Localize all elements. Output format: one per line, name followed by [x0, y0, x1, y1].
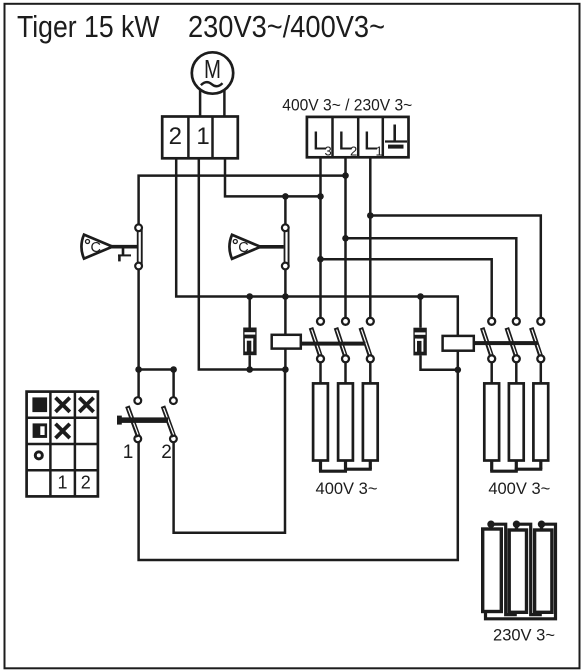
heating element R2 [338, 383, 353, 460]
table symbol: X row2 col2 [56, 424, 70, 438]
svg-text:3: 3 [325, 144, 332, 159]
heating element R6 [533, 383, 548, 460]
wire: phase L2 vertical [344, 157, 347, 317]
wire: L2 branch to contactor K2 pole 2 [346, 238, 517, 317]
wire motor lead left [199, 90, 202, 118]
thermostat T1 actuator arm [111, 245, 138, 249]
svg-text:C: C [238, 240, 248, 256]
230V inset wiring: phase 1 hook [491, 524, 517, 614]
heating element R4 [484, 383, 499, 460]
230V inset wiring: phase 3 hook to R7 bottom [486, 524, 556, 619]
svg-text:2: 2 [169, 123, 182, 150]
wire: K1 element stub 2 [344, 363, 347, 384]
wire: thermostat T2 bottom to coil rail [284, 270, 287, 297]
wire motor lead right [223, 90, 226, 118]
230V delta inset: heating element R8 [509, 530, 526, 612]
thermostat T1 manual reset symbol [118, 248, 131, 261]
wire: thermostat T1 top to L2 (horizontal y175.6) [139, 176, 346, 224]
wire: switch pole 2 to left return riser [174, 370, 285, 533]
heating element R1 [313, 383, 328, 460]
table symbol: circle (row3) [35, 452, 42, 459]
svg-text:230V 3~: 230V 3~ [493, 627, 555, 645]
heating element R3 [363, 383, 378, 460]
wire: motor blank terminal to L3 (y196.4) [225, 158, 321, 196]
wire: R4-R6 star bus [490, 461, 542, 472]
svg-text:C: C [91, 240, 101, 256]
selector switch S1 actuator bar [117, 416, 168, 425]
overheat limiter F2 [413, 328, 426, 356]
switch position table [27, 392, 98, 497]
wire: F1 limiter feed [248, 297, 251, 328]
selector switch S1 pole 2 blade [163, 406, 174, 437]
wire: switch pole 1 to right return (bottom run y560) [139, 370, 458, 560]
thermostat T1 sensor bulb [82, 235, 113, 259]
wire: R1-R3 star bus [319, 461, 372, 472]
selector switch S1 pole 2 contacts [170, 397, 177, 442]
thermostat T2 sensor bulb [230, 235, 261, 259]
svg-text:2: 2 [161, 442, 172, 463]
wire: F2 limiter feed [419, 297, 422, 328]
selector switch S1 pole 1 blade [127, 406, 138, 437]
selector switch S1 pole 1 contacts [134, 397, 141, 442]
230V inset wiring: phase 2 hook [517, 524, 542, 614]
svg-text:1: 1 [123, 442, 134, 463]
heating element R5 [509, 383, 524, 460]
wire: K1 element stub 1 [319, 363, 322, 384]
wire: tap to thermostat T2 [284, 196, 287, 223]
svg-text:400V 3~ / 230V 3~: 400V 3~ / 230V 3~ [282, 97, 412, 115]
ground symbol (PE earth) [385, 125, 407, 149]
wire: link to switch pole 2 [139, 370, 174, 398]
thermostat T2 contact blade [284, 229, 290, 264]
wire: L1 branch to contactor K2 pole 3 [370, 216, 541, 318]
svg-text:400V 3~: 400V 3~ [488, 480, 550, 498]
svg-text:M: M [204, 56, 221, 84]
svg-text:400V 3~: 400V 3~ [316, 480, 378, 498]
wire: F2 limiter return to node [421, 355, 458, 369]
table symbol: X row1 col2 [56, 398, 70, 412]
junction dots [135, 172, 461, 373]
contactor K2 contacts (3-pole) [474, 318, 545, 363]
wire: F1 limiter return [248, 355, 251, 369]
wire: motor terminal 1 to return rail (y369.5) [199, 158, 287, 369]
motor terminal block X1 (terminals 2,1,blank) [162, 117, 238, 159]
wire: phase L1 vertical [369, 157, 372, 317]
wire: K2 coil feed [457, 297, 460, 336]
230V delta inset: heating element R9 [535, 530, 552, 612]
wire: K2 element stub 2 [515, 363, 518, 384]
wire: phase L3 vertical [319, 157, 322, 317]
svg-text:230V3~/400V3~: 230V3~/400V3~ [188, 9, 385, 44]
wire: K1 coil feed [284, 297, 287, 335]
svg-text:Tiger 15 kW: Tiger 15 kW [17, 9, 160, 44]
wire: K1 element stub 3 [369, 363, 372, 384]
contactor K1 coil [272, 335, 301, 349]
thermostat T1 contact blade [137, 229, 143, 264]
contactor K2 coil [443, 336, 474, 351]
wire: K2 coil return [457, 351, 460, 370]
motor M1 [192, 52, 233, 93]
wire: thermostat T1 bottom to switch pole 1 [137, 270, 140, 397]
wire: K1 coil return [284, 349, 287, 370]
label: diagram title "Tiger 15 kW 230V3~/400V3~" [17, 9, 385, 44]
thermostat T2 contact circles [282, 224, 289, 269]
contactor K1 contacts (3-pole) [301, 318, 374, 363]
svg-text:1: 1 [57, 472, 67, 492]
wire: K2 element stub 1 [490, 363, 493, 384]
table symbol: filled square (row1) [32, 397, 47, 412]
wire: K2 element stub 3 [540, 363, 543, 384]
overheat limiter F1 [243, 328, 256, 356]
230V inset wiring: element R9 bottom stub [538, 611, 541, 615]
svg-text:2: 2 [81, 472, 91, 492]
230V inset terminal dots [487, 521, 545, 528]
svg-text:1: 1 [196, 123, 209, 150]
wire: motor terminal 2 to coil feed rail (y296.5) [176, 158, 459, 296]
230V delta inset: heating element R7 [483, 529, 502, 612]
wire: L3 branch to contactor K2 pole 1 [321, 259, 492, 317]
230V inset wiring: element R8 bottom stub [513, 611, 516, 615]
svg-text:1: 1 [376, 144, 383, 159]
table symbol: X row1 col3 [79, 398, 93, 412]
table symbol: half-filled square (row2) [33, 423, 48, 438]
thermostat T2 actuator arm [259, 245, 284, 249]
svg-text:2: 2 [350, 144, 357, 159]
supply terminal block X2: L3 L2 L1 PE [307, 117, 409, 159]
thermostat T1 contact circles [135, 224, 142, 269]
